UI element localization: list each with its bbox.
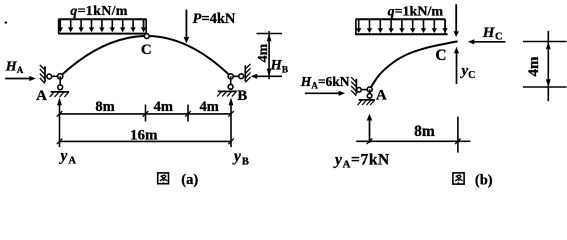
reaction y_B arrow line [230, 103, 232, 147]
svg-text:q=1kN/m: q=1kN/m [388, 4, 444, 19]
caption 图 (b) [453, 173, 464, 184]
svg-text:16m: 16m [130, 128, 158, 144]
svg-text:yA: yA [59, 148, 77, 167]
support A link (b) [359, 89, 370, 91]
tiny scan speck [5, 22, 7, 24]
svg-text:q=1kN/m: q=1kN/m [70, 4, 128, 19]
force H_C arrow [473, 41, 505, 43]
support A ground [51, 91, 69, 93]
force H_A arrow (a) [5, 78, 30, 80]
dimension line 8m (b) [356, 140, 470, 142]
force P arrow [185, 10, 187, 39]
svg-text:yB: yB [232, 148, 250, 167]
force H_B arrow [256, 75, 282, 77]
support A ground (b) [359, 99, 375, 101]
support A link roller circles [49, 75, 60, 77]
svg-text:4m: 4m [256, 43, 271, 62]
dimension line 16m [60, 140, 232, 142]
hinge B circle [231, 75, 242, 77]
support B link roller circle [239, 74, 244, 79]
dim slash ticks line1 [57, 111, 63, 117]
svg-text:HC: HC [482, 25, 503, 43]
support A wall (b) [355, 79, 357, 94]
svg-text:A: A [36, 88, 47, 104]
force H_A arrow (b) [305, 92, 340, 94]
half arch rib AC [370, 41, 458, 89]
dim slash ticks (b) [367, 139, 373, 145]
distributed load block (a) [58, 18, 146, 20]
svg-text:4m: 4m [154, 99, 173, 115]
caption 图 (a) [158, 173, 169, 184]
force y_C arrow [456, 52, 458, 84]
svg-text:(a): (a) [181, 172, 198, 188]
hinge A circle (b) [367, 87, 372, 92]
support B pedestal link [230, 76, 232, 87]
dimension tick x=188 [187, 105, 189, 122]
svg-text:yC: yC [460, 63, 476, 81]
reaction y_A arrow (b) [369, 119, 371, 143]
svg-text:A: A [376, 88, 387, 104]
hinge A circle [58, 74, 63, 79]
svg-text:8m: 8m [414, 123, 435, 140]
load edge long arrow at C [455, 4, 457, 32]
dimension tick x=458 (b) [457, 117, 459, 153]
dimension tick x=145.5 [145, 105, 147, 122]
svg-text:4m: 4m [200, 99, 219, 115]
svg-text:(b): (b) [475, 172, 493, 188]
arch rib ACB [60, 36, 231, 76]
crown hinge C circle [144, 34, 149, 39]
svg-text:4m: 4m [526, 56, 542, 77]
support B ground [218, 90, 237, 92]
reaction y_A arrow line [59, 103, 61, 147]
svg-text:HA=6kN: HA=6kN [300, 74, 350, 90]
support B wall (a) [244, 65, 246, 81]
svg-text:yA=7kN: yA=7kN [333, 152, 390, 171]
svg-text:P=4kN: P=4kN [193, 11, 236, 27]
svg-text:HB: HB [270, 58, 289, 76]
svg-text:HA: HA [5, 60, 24, 75]
support A pedestal link [59, 76, 61, 87]
svg-text:C: C [141, 42, 152, 58]
4m dimension line (a) [268, 31, 270, 79]
distributed load block (b) [356, 18, 446, 20]
svg-text:8m: 8m [95, 99, 114, 115]
support A wall (a) [44, 66, 46, 82]
svg-text:C: C [435, 47, 446, 64]
support A pedestal (b) [369, 89, 371, 96]
dimension line 8m/4m/4m [60, 113, 232, 115]
svg-text:B: B [237, 88, 247, 104]
4m dimension (right, b) [547, 31, 549, 101]
